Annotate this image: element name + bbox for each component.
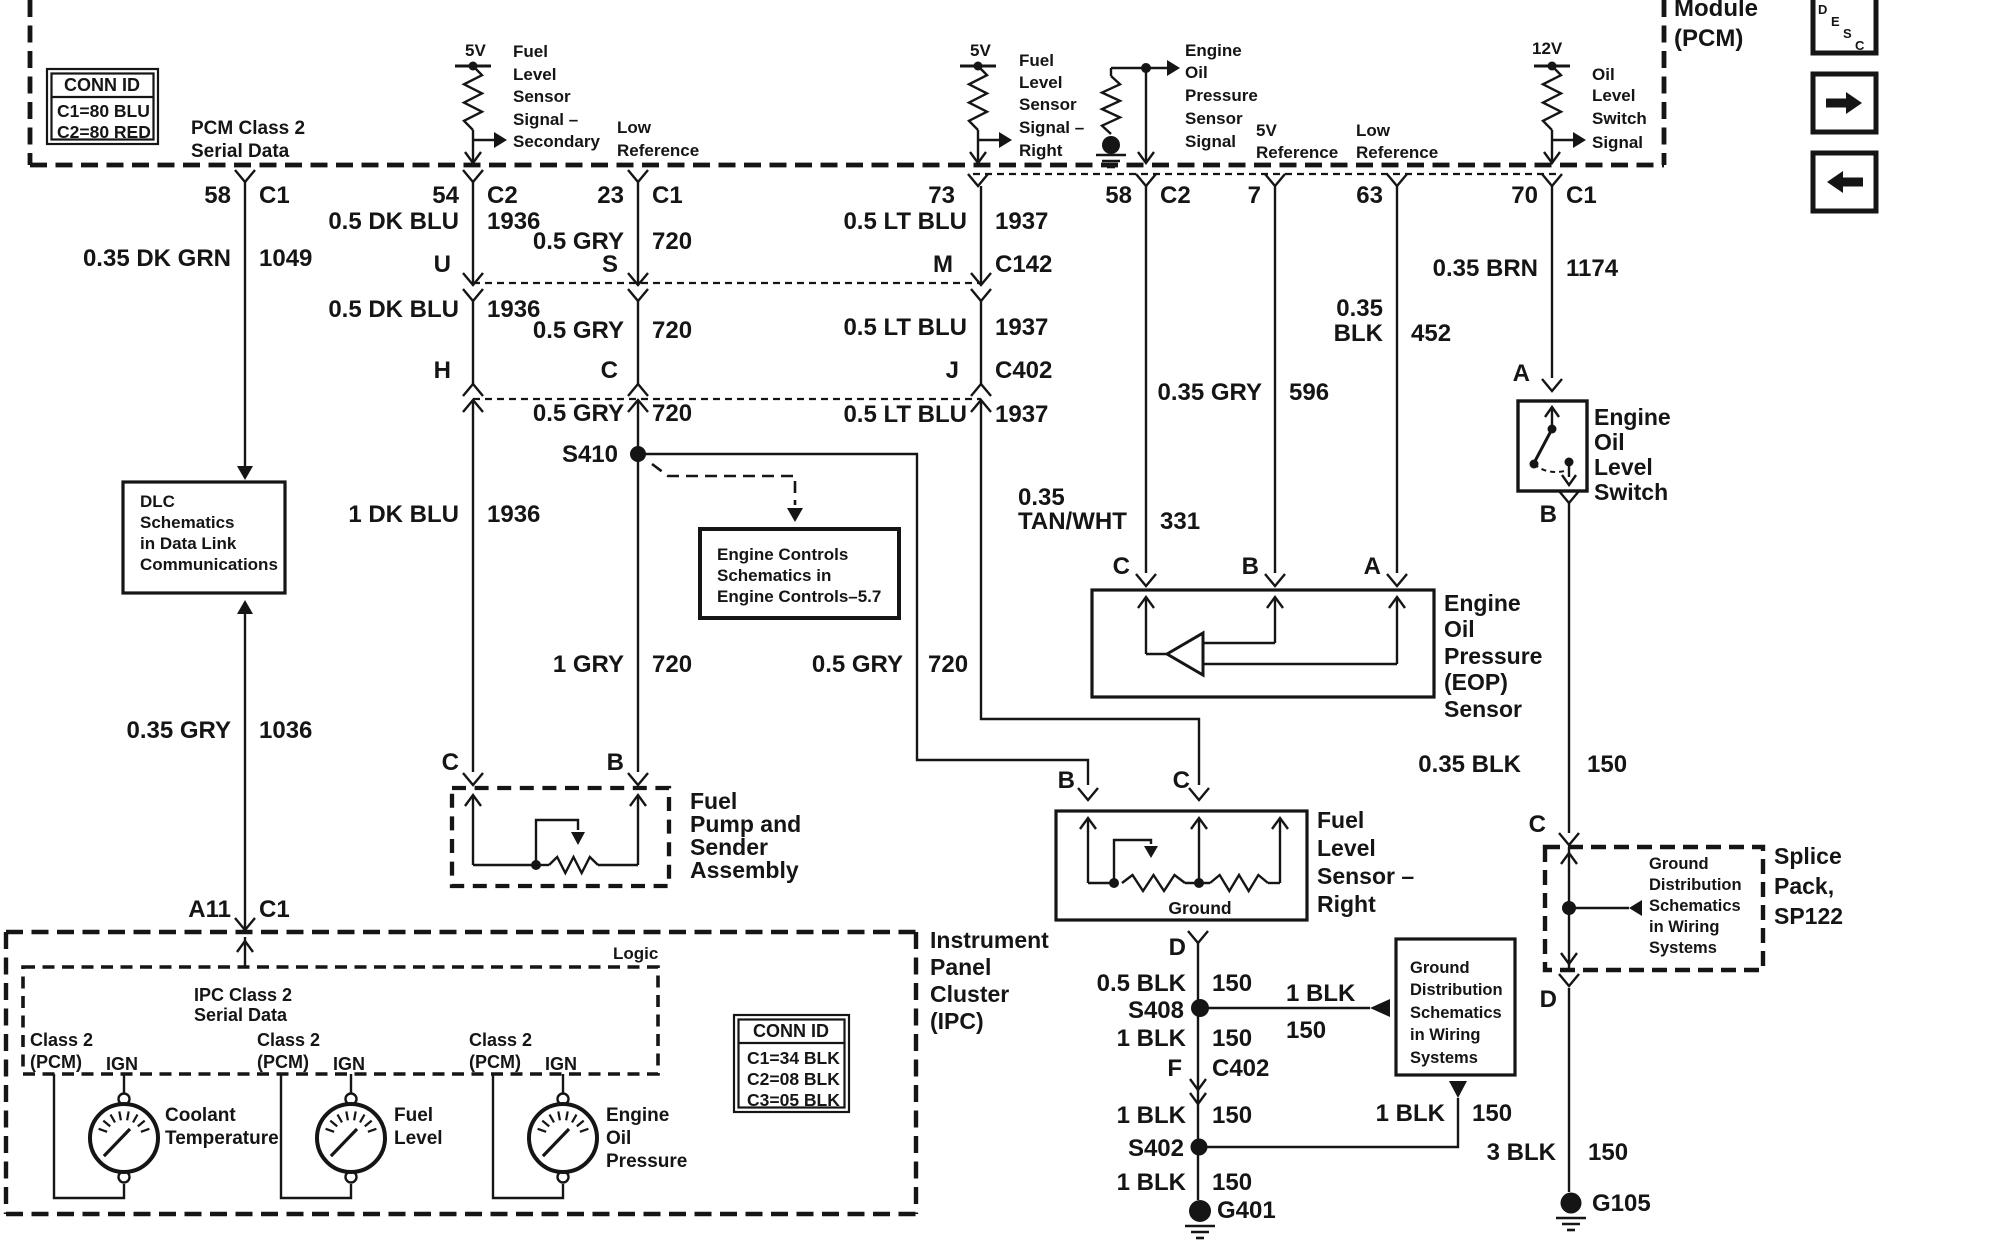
wire 3 BLK 150 to G105: [1568, 988, 1570, 1192]
svg-text:S408: S408: [1128, 997, 1184, 1024]
svg-text:150: 150: [1472, 1100, 1512, 1127]
svg-text:C402: C402: [995, 357, 1052, 384]
terminal C (fuel pump): [442, 749, 483, 785]
svg-text:5V: 5V: [970, 41, 991, 60]
label Fuel Pump and Sender Assembly: [690, 788, 801, 883]
terminal D (splice pack): [1540, 974, 1579, 1013]
svg-text:Secondary: Secondary: [513, 132, 600, 151]
svg-text:D: D: [1540, 986, 1557, 1013]
arrow Engine Oil Pressure Sensor Signal: [1146, 60, 1180, 76]
svg-text:E: E: [1831, 14, 1840, 29]
label Engine Oil Level Switch: [1594, 404, 1671, 505]
svg-text:150: 150: [1588, 1139, 1628, 1166]
svg-text:Low: Low: [1356, 121, 1391, 140]
svg-text:Instrument: Instrument: [930, 927, 1049, 953]
svg-text:Class 2: Class 2: [469, 1030, 532, 1050]
arrowhead into PCM line: [970, 152, 986, 163]
svg-text:Class 2: Class 2: [257, 1030, 320, 1050]
svg-text:Systems: Systems: [1649, 939, 1717, 957]
svg-text:Low: Low: [617, 118, 652, 137]
svg-text:IGN: IGN: [106, 1054, 138, 1074]
svg-text:0.5 GRY: 0.5 GRY: [533, 317, 624, 344]
EOP pin A internal arrow: [1203, 597, 1405, 664]
splice S402: [1128, 1135, 1208, 1162]
wire 0.35 DK GRN 1049 (class 2 serial data): [244, 182, 246, 468]
pin 70 C1 (oil level switch signal): [1511, 174, 1596, 209]
label 1 BLK 150 (riser): [1376, 1100, 1512, 1127]
fuel level sensor resistors: [1088, 875, 1280, 891]
ground G105: [1556, 1190, 1651, 1230]
terminal A (EOP sensor): [1364, 553, 1407, 586]
pin 58 C2 (EOP signal): [1105, 174, 1190, 209]
splice S408: [1128, 997, 1209, 1024]
wire 0.5 BLK 150: [1197, 943, 1199, 1200]
label 1 BLK 150 (above S402): [1117, 1102, 1252, 1129]
terminal C (fuel level sensor right): [1173, 767, 1209, 800]
svg-text:Switch: Switch: [1594, 479, 1668, 505]
svg-text:Sensor: Sensor: [1444, 696, 1522, 722]
label 1 DK BLU 1936: [348, 501, 540, 528]
svg-text:B: B: [1540, 501, 1557, 528]
pin 63 (low reference): [1356, 174, 1407, 209]
wire 0.5 LT BLU 1937 segment 2: [980, 301, 982, 384]
svg-text:C402: C402: [1212, 1055, 1269, 1082]
arrowhead into PCM line: [465, 152, 481, 163]
svg-text:Cluster: Cluster: [930, 981, 1009, 1007]
svg-text:C: C: [1529, 811, 1546, 838]
wire 0.5 DK BLU 1936 segment 2: [472, 301, 474, 384]
svg-text:150: 150: [1212, 970, 1252, 997]
label 0.5 BLK 150: [1097, 970, 1252, 997]
svg-text:C1: C1: [259, 182, 290, 209]
svg-text:1937: 1937: [995, 208, 1048, 235]
svg-text:3 BLK: 3 BLK: [1487, 1139, 1557, 1166]
svg-text:0.5 DK BLU: 0.5 DK BLU: [328, 208, 459, 235]
pin 73 C2: [928, 174, 988, 209]
svg-text:1049: 1049: [259, 245, 312, 272]
svg-text:Sensor: Sensor: [513, 87, 571, 106]
svg-text:Engine: Engine: [1444, 590, 1521, 616]
svg-text:Ground: Ground: [1649, 855, 1709, 873]
fuel level sensor wiper: [1114, 840, 1158, 883]
svg-text:B: B: [1058, 767, 1075, 794]
inline connector C142 terminal U: [434, 251, 483, 301]
svg-text:0.35 GRY: 0.35 GRY: [1158, 379, 1263, 406]
svg-text:0.35: 0.35: [1336, 295, 1383, 322]
svg-text:720: 720: [928, 651, 968, 678]
pin 58 C1 (PCM serial data): [204, 170, 289, 209]
label 1 BLK 150 (above G401): [1117, 1169, 1252, 1196]
wire S410 branch 0.5 GRY 720: [638, 454, 1088, 785]
wire 0.35 GRY 596: [1274, 186, 1276, 573]
svg-text:C2: C2: [1160, 182, 1191, 209]
svg-text:G105: G105: [1592, 1190, 1651, 1217]
terminal B (fuel level sensor right): [1058, 767, 1098, 800]
svg-text:Oil: Oil: [1594, 429, 1625, 455]
svg-text:B: B: [607, 749, 624, 776]
svg-text:Signal: Signal: [1185, 132, 1236, 151]
label 0.35 GRY 1036: [127, 717, 313, 744]
svg-text:Schematics: Schematics: [1649, 897, 1741, 915]
svg-text:70: 70: [1511, 182, 1538, 209]
label 0.35 GRY 596: [1158, 379, 1330, 406]
svg-text:720: 720: [652, 228, 692, 255]
gauge Fuel Level: [281, 1074, 385, 1198]
svg-text:CONN ID: CONN ID: [753, 1021, 829, 1041]
svg-text:S410: S410: [562, 441, 618, 468]
svg-text:Pressure: Pressure: [606, 1151, 687, 1172]
ground (EOP resistor): [1096, 136, 1126, 167]
svg-text:Fuel: Fuel: [1019, 51, 1054, 70]
svg-text:IGN: IGN: [545, 1054, 577, 1074]
connector ID table (IPC) C1=34 BLK C2=08 BLK C3=05 BLK: [734, 1015, 849, 1112]
IPC logic inner box (dashed): [23, 967, 658, 1074]
label Fuel Level Sensor Signal - Secondary: [513, 42, 600, 151]
Instrument Panel Cluster box (dashed): [6, 932, 916, 1214]
label Fuel Level Sensor Signal - Right: [1019, 51, 1084, 160]
wire 0.35 TAN/WHT 331: [1145, 186, 1147, 573]
icon box arrow right: [1813, 74, 1876, 132]
svg-text:58: 58: [1105, 182, 1132, 209]
svg-text:0.5 LT BLU: 0.5 LT BLU: [843, 401, 967, 428]
oil level switch contacts: [1530, 407, 1577, 485]
svg-text:0.35 BRN: 0.35 BRN: [1433, 255, 1538, 282]
label Module (PCM): [1674, 0, 1758, 52]
svg-text:A: A: [1364, 553, 1381, 580]
svg-text:IGN: IGN: [333, 1054, 365, 1074]
label 1 GRY 720: [553, 651, 692, 678]
svg-text:Level: Level: [513, 65, 556, 84]
svg-text:Reference: Reference: [617, 141, 699, 160]
svg-text:Signal –: Signal –: [513, 110, 578, 129]
label Instrument Panel Cluster (IPC): [930, 927, 1049, 1034]
label 3 BLK 150: [1487, 1139, 1628, 1166]
svg-text:C: C: [1855, 38, 1865, 53]
pin 54 C2: [432, 170, 517, 209]
label Low Reference (pin 23): [617, 118, 699, 160]
svg-text:58: 58: [204, 182, 231, 209]
svg-text:0.35 DK GRN: 0.35 DK GRN: [83, 245, 231, 272]
svg-text:C1: C1: [259, 896, 290, 923]
svg-text:Systems: Systems: [1410, 1049, 1478, 1067]
svg-text:1 BLK: 1 BLK: [1117, 1102, 1187, 1129]
svg-text:PCM Class 2: PCM Class 2: [191, 118, 305, 139]
svg-text:Level: Level: [1594, 454, 1653, 480]
EOP sensor signal node wire: [1111, 63, 1151, 163]
svg-text:in Wiring: in Wiring: [1410, 1026, 1480, 1044]
label 0.35 BLK 150: [1418, 751, 1627, 778]
svg-text:0.5 LT BLU: 0.5 LT BLU: [843, 314, 967, 341]
arrow into DLC box: [237, 466, 253, 480]
Engine Oil Pressure (EOP) sensor box: [1092, 590, 1434, 697]
icon box DESC: [1813, 0, 1876, 53]
wire 0.35 BLK 150 (oil level switch to splice pack): [1568, 503, 1570, 833]
terminal C (splice pack): [1529, 811, 1579, 845]
svg-text:Temperature: Temperature: [165, 1128, 279, 1149]
splice S410: [562, 441, 646, 468]
svg-text:(EOP): (EOP): [1444, 669, 1508, 695]
svg-text:Engine Controls–5.7: Engine Controls–5.7: [717, 587, 881, 606]
inline connector row C142 (dashed): [473, 282, 981, 284]
svg-text:Ground: Ground: [1410, 959, 1470, 977]
label Engine Oil Pressure: [606, 1105, 687, 1172]
svg-text:J: J: [946, 357, 959, 384]
svg-text:Reference: Reference: [1356, 143, 1438, 162]
wire 0.5 LT BLU 1937 segment 3: [981, 400, 1199, 785]
svg-text:C: C: [442, 749, 459, 776]
label 1 BLK 150 (branch): [1286, 980, 1356, 1044]
svg-text:Engine Controls: Engine Controls: [717, 545, 848, 564]
svg-text:150: 150: [1286, 1017, 1326, 1044]
svg-text:Splice: Splice: [1774, 843, 1842, 869]
gauge Engine Oil Pressure: [493, 1074, 597, 1198]
svg-text:G401: G401: [1217, 1197, 1276, 1224]
svg-text:(PCM): (PCM): [30, 1052, 82, 1072]
svg-text:(PCM): (PCM): [257, 1052, 309, 1072]
label 0.5 GRY 720 (branch): [812, 651, 968, 678]
branch arrow into ground distribution box: [1449, 1081, 1467, 1098]
label Coolant Temperature: [165, 1105, 279, 1149]
pin A11 C1 (IPC): [188, 896, 289, 930]
label Engine Oil Pressure (EOP) Sensor: [1444, 590, 1542, 722]
icon box arrow left: [1813, 153, 1876, 211]
svg-text:Module: Module: [1674, 0, 1758, 22]
pin 7 (5V reference): [1248, 174, 1285, 209]
label 0.35 BLK 452: [1334, 295, 1451, 347]
label 0.5 GRY 720 (seg 3): [533, 400, 692, 427]
svg-text:D: D: [1169, 934, 1186, 961]
5V supply (fuel level secondary): [455, 41, 491, 71]
label Class 2 (PCM) / IGN (coolant): [30, 1030, 138, 1074]
connector ID table C1=80 BLU C2=80 RED: [47, 69, 158, 144]
svg-text:Sensor: Sensor: [1019, 95, 1077, 114]
terminal B (EOP sensor): [1242, 553, 1285, 586]
EOP pin C internal arrow: [1138, 597, 1167, 654]
svg-text:720: 720: [652, 317, 692, 344]
svg-text:1 BLK: 1 BLK: [1117, 1169, 1187, 1196]
wire 1 DK BLU 1936 segment 3: [472, 400, 474, 772]
svg-text:Schematics in: Schematics in: [717, 566, 831, 585]
svg-text:Fuel: Fuel: [1317, 807, 1364, 833]
svg-text:(PCM): (PCM): [1674, 25, 1743, 52]
label 0.5 DK BLU 1936 (seg 2): [328, 296, 540, 323]
svg-text:0.5 GRY: 0.5 GRY: [533, 400, 624, 427]
svg-text:23: 23: [597, 182, 624, 209]
svg-text:CONN ID: CONN ID: [64, 75, 140, 95]
svg-text:1936: 1936: [487, 501, 540, 528]
svg-text:(PCM): (PCM): [469, 1052, 521, 1072]
svg-text:Serial Data: Serial Data: [191, 141, 290, 162]
svg-text:in Wiring: in Wiring: [1649, 918, 1719, 936]
svg-text:C1=80 BLU: C1=80 BLU: [57, 101, 150, 121]
label 0.5 LT BLU 1937 (seg 1): [843, 208, 1048, 235]
label 0.35 TAN/WHT 331: [1018, 484, 1200, 535]
arrowhead into PCM line: [1544, 152, 1560, 163]
svg-text:B: B: [1242, 553, 1259, 580]
DLC reference box: [123, 482, 285, 593]
5V supply (fuel level right): [960, 41, 996, 71]
wire 0.5 LT BLU 1937 segment 1: [980, 186, 982, 285]
PCM module outline (dashed): [30, 0, 1664, 165]
label 0.5 GRY 720 (seg 2): [533, 317, 692, 344]
svg-text:Level: Level: [1592, 86, 1635, 105]
svg-text:Communications: Communications: [140, 555, 278, 574]
svg-text:1937: 1937: [995, 314, 1048, 341]
svg-text:Sensor: Sensor: [1185, 109, 1243, 128]
svg-text:C142: C142: [995, 251, 1052, 278]
fuel pump sender resistor: [473, 857, 638, 873]
svg-text:1 BLK: 1 BLK: [1286, 980, 1356, 1007]
splice pack internal wire: [1561, 847, 1577, 970]
svg-text:150: 150: [1212, 1169, 1252, 1196]
svg-text:Oil: Oil: [1185, 63, 1208, 82]
svg-text:F: F: [1167, 1055, 1182, 1082]
svg-text:150: 150: [1212, 1102, 1252, 1129]
fuel pump internal arrows: [465, 795, 646, 865]
wire 0.35 BRN 1174: [1551, 186, 1553, 378]
svg-text:720: 720: [652, 400, 692, 427]
svg-text:Level: Level: [394, 1128, 443, 1149]
inline connector C142 terminal M: [933, 251, 1052, 301]
label 0.35 BRN 1174: [1433, 255, 1619, 282]
svg-text:1174: 1174: [1566, 255, 1619, 282]
svg-text:Engine: Engine: [606, 1105, 669, 1126]
label 0.5 GRY 720 (seg 1): [533, 228, 692, 255]
arrow Fuel Level Sensor Signal - Right: [978, 132, 1012, 148]
label Engine Oil Pressure Sensor Signal: [1185, 41, 1258, 151]
svg-text:Engine: Engine: [1594, 404, 1671, 430]
svg-text:Oil: Oil: [1592, 65, 1615, 84]
svg-text:Right: Right: [1019, 141, 1063, 160]
Engine Oil Level Switch box: [1518, 401, 1587, 491]
svg-text:S: S: [1843, 26, 1852, 41]
svg-text:C1: C1: [1566, 182, 1597, 209]
fuel level sensor internal arrows: [1080, 818, 1288, 883]
Splice Pack SP122 box (dashed): [1545, 847, 1763, 970]
svg-text:1 DK BLU: 1 DK BLU: [348, 501, 459, 528]
svg-text:D: D: [1818, 2, 1827, 17]
wire 0.5 GRY 720 segment 1: [637, 182, 639, 285]
label Fuel Level Sensor - Right: [1317, 807, 1414, 917]
svg-text:1937: 1937: [995, 401, 1048, 428]
svg-text:U: U: [434, 251, 451, 278]
terminal B (fuel pump): [607, 749, 648, 785]
svg-text:C1=34 BLK: C1=34 BLK: [747, 1048, 840, 1068]
svg-text:Schematics: Schematics: [140, 513, 235, 532]
label 0.5 LT BLU 1937 (seg 3): [843, 401, 1048, 428]
svg-text:Signal: Signal: [1592, 133, 1643, 152]
svg-text:S: S: [602, 251, 618, 278]
inline connector C142 terminal S: [602, 251, 648, 301]
inline connector C402 terminal F: [1167, 1055, 1269, 1104]
wire resistor to PCM line: [472, 130, 474, 163]
svg-text:Pack,: Pack,: [1774, 873, 1834, 899]
svg-text:BLK: BLK: [1334, 320, 1384, 347]
svg-text:Level: Level: [1317, 835, 1376, 861]
svg-text:C1: C1: [652, 182, 683, 209]
svg-text:A: A: [1513, 360, 1530, 387]
svg-text:1036: 1036: [259, 717, 312, 744]
label IPC Class 2 Serial Data: [194, 985, 292, 1025]
Fuel Pump and Sender Assembly box (dashed): [452, 788, 669, 886]
svg-text:0.35 BLK: 0.35 BLK: [1418, 751, 1521, 778]
svg-text:M: M: [933, 251, 953, 278]
12V supply (oil level switch): [1532, 39, 1570, 71]
svg-text:C: C: [601, 357, 618, 384]
resistor (EOP pull-up): [1102, 68, 1120, 134]
Ground Distribution Schematics box: [1396, 939, 1515, 1075]
PCM connector face (fine dashed): [973, 173, 1556, 175]
svg-text:Switch: Switch: [1592, 109, 1647, 128]
label 0.5 DK BLU 1936 (seg 1): [328, 208, 540, 235]
label 5V Reference (pin 7): [1256, 121, 1338, 162]
dashed branch to engine controls schematics: [652, 464, 795, 505]
svg-text:73: 73: [928, 182, 955, 209]
svg-text:Oil: Oil: [1444, 616, 1475, 642]
ground G401: [1185, 1197, 1276, 1238]
svg-text:1 GRY: 1 GRY: [553, 651, 624, 678]
svg-text:Level: Level: [1019, 73, 1062, 92]
arrow Fuel Level Sensor Signal - Secondary: [473, 132, 507, 148]
arrow Oil Level Switch Signal: [1552, 132, 1586, 148]
arrowhead into PCM line: [1138, 152, 1154, 163]
svg-text:DLC: DLC: [140, 492, 175, 511]
svg-text:C2=08 BLK: C2=08 BLK: [747, 1069, 840, 1089]
svg-text:0.35: 0.35: [1018, 484, 1065, 511]
svg-text:5V: 5V: [1256, 121, 1277, 140]
splice pack branch arrow to ground distribution reference: [1569, 900, 1642, 916]
pin 23 C1: [597, 170, 682, 209]
arrow out of DLC box (up): [237, 600, 253, 928]
gauge Coolant Temperature: [54, 1074, 158, 1198]
arrowhead into IPC logic: [237, 937, 253, 967]
svg-text:Schematics: Schematics: [1410, 1004, 1502, 1022]
svg-text:Sensor –: Sensor –: [1317, 863, 1414, 889]
svg-text:Coolant: Coolant: [165, 1105, 236, 1126]
svg-text:331: 331: [1160, 508, 1200, 535]
svg-text:Ground: Ground: [1168, 898, 1231, 918]
svg-text:S402: S402: [1128, 1135, 1184, 1162]
svg-text:596: 596: [1289, 379, 1329, 406]
svg-text:Assembly: Assembly: [690, 857, 799, 883]
svg-text:12V: 12V: [1532, 39, 1563, 58]
inline connector C402 terminal J: [946, 357, 1053, 412]
svg-text:Class 2: Class 2: [30, 1030, 93, 1050]
label Class 2 (PCM) / IGN (oil): [469, 1030, 577, 1074]
svg-text:C: C: [1113, 553, 1130, 580]
label Fuel Level: [394, 1105, 443, 1149]
terminal A (oil level switch): [1513, 360, 1562, 391]
svg-text:63: 63: [1356, 182, 1383, 209]
terminal C (EOP sensor): [1113, 553, 1156, 586]
svg-text:Pressure: Pressure: [1185, 86, 1258, 105]
svg-text:0.35 GRY: 0.35 GRY: [127, 717, 232, 744]
svg-text:150: 150: [1212, 1025, 1252, 1052]
svg-text:Fuel: Fuel: [513, 42, 548, 61]
svg-text:A11: A11: [188, 896, 231, 923]
wire 0.5 GRY 720 segment 3: [637, 400, 639, 772]
wire 0.5 GRY 720 segment 2: [637, 301, 639, 384]
label Splice Pack SP122: [1774, 843, 1843, 929]
svg-text:452: 452: [1411, 320, 1451, 347]
Engine Controls reference box: [700, 529, 899, 618]
svg-text:Panel: Panel: [930, 954, 991, 980]
branch wire S402 to ground distribution box: [1198, 1098, 1458, 1147]
Fuel Level Sensor - Right box: [1056, 811, 1307, 920]
svg-text:TAN/WHT: TAN/WHT: [1018, 508, 1127, 535]
svg-text:Oil: Oil: [606, 1128, 631, 1149]
svg-text:in Data Link: in Data Link: [140, 534, 237, 553]
